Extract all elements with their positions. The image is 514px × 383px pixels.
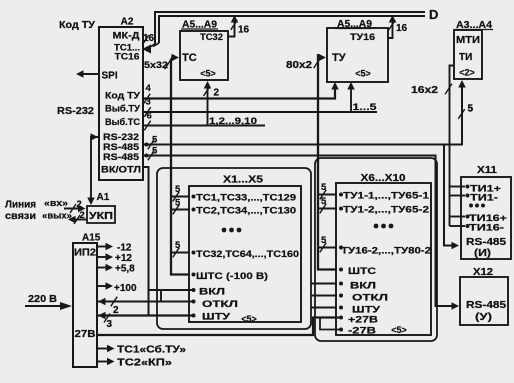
svg-text:5: 5 bbox=[175, 240, 181, 251]
svg-text:(У): (У) bbox=[475, 312, 492, 323]
svg-text:ТУ16-2,...,ТУ80-2: ТУ16-2,...,ТУ80-2 bbox=[341, 246, 431, 257]
svg-text:ВК/ОТЛ: ВК/ОТЛ bbox=[101, 165, 141, 176]
svg-text:RS-485: RS-485 bbox=[466, 237, 507, 248]
svg-text:УКП: УКП bbox=[89, 211, 113, 222]
svg-text:ШТС (-100 В): ШТС (-100 В) bbox=[196, 271, 268, 282]
svg-text:ТС32,ТС64,...,ТС160: ТС32,ТС64,...,ТС160 bbox=[196, 249, 299, 260]
svg-text:+12: +12 bbox=[115, 253, 132, 264]
svg-text:ТС32: ТС32 bbox=[200, 32, 223, 43]
svg-text:D: D bbox=[429, 7, 438, 22]
svg-text:Х12: Х12 bbox=[473, 267, 493, 278]
svg-text:5: 5 bbox=[321, 182, 327, 193]
svg-text:связи: связи bbox=[5, 211, 36, 222]
svg-text:5: 5 bbox=[152, 135, 158, 146]
svg-text:6: 6 bbox=[147, 111, 152, 122]
svg-text:ТС1«Сб.ТУ»: ТС1«Сб.ТУ» bbox=[117, 344, 187, 356]
svg-text:ТУ16: ТУ16 bbox=[350, 32, 375, 42]
svg-text:Код ТУ: Код ТУ bbox=[59, 20, 96, 31]
svg-text:RS-485: RS-485 bbox=[466, 300, 507, 311]
svg-text:«вх»: «вх» bbox=[44, 198, 68, 209]
svg-text:Х1...Х5: Х1...Х5 bbox=[223, 175, 264, 186]
svg-text:+5,8: +5,8 bbox=[115, 264, 135, 275]
svg-text:5: 5 bbox=[468, 104, 474, 115]
svg-text:2: 2 bbox=[214, 88, 220, 99]
svg-text:1,2...9,10: 1,2...9,10 bbox=[209, 116, 257, 127]
svg-text:2: 2 bbox=[80, 210, 85, 221]
svg-text:Х6...Х10: Х6...Х10 bbox=[361, 173, 407, 184]
svg-text:<2>: <2> bbox=[459, 68, 475, 78]
svg-text:5: 5 bbox=[321, 196, 327, 207]
svg-text:SPI: SPI bbox=[102, 71, 118, 82]
svg-text:ВКЛ: ВКЛ bbox=[350, 281, 376, 292]
svg-text:Код ТУ: Код ТУ bbox=[105, 91, 140, 102]
svg-text:-27В: -27В bbox=[348, 326, 376, 337]
svg-text:3: 3 bbox=[146, 97, 151, 108]
svg-text:<5>: <5> bbox=[391, 325, 407, 335]
svg-text:ТУ: ТУ bbox=[332, 52, 346, 64]
svg-text:5х32: 5х32 bbox=[144, 60, 168, 71]
svg-text:16: 16 bbox=[238, 25, 250, 36]
svg-text:2: 2 bbox=[113, 305, 119, 316]
svg-text:5: 5 bbox=[175, 198, 181, 209]
svg-text:Выб.ТУ: Выб.ТУ bbox=[105, 104, 140, 115]
svg-text:А15: А15 bbox=[82, 233, 101, 244]
svg-text:16: 16 bbox=[396, 23, 408, 34]
svg-text:-12: -12 bbox=[117, 243, 132, 254]
svg-text:ШТС: ШТС bbox=[348, 266, 376, 277]
svg-text:5: 5 bbox=[321, 235, 327, 246]
svg-text:3: 3 bbox=[107, 319, 113, 330]
svg-text:ТС16: ТС16 bbox=[115, 52, 140, 63]
svg-text:+27В: +27В bbox=[348, 315, 378, 326]
svg-text:ТУ1-1,...,ТУ65-1: ТУ1-1,...,ТУ65-1 bbox=[343, 191, 430, 202]
svg-text:ВКЛ: ВКЛ bbox=[199, 287, 225, 298]
svg-text:5: 5 bbox=[175, 184, 181, 195]
svg-text:ТС2«КП»: ТС2«КП» bbox=[117, 358, 173, 369]
svg-text:16: 16 bbox=[143, 33, 155, 44]
svg-text:RS-232: RS-232 bbox=[57, 106, 94, 117]
svg-text:27В: 27В bbox=[75, 329, 96, 340]
svg-text:«вых»: «вых» bbox=[42, 211, 72, 222]
svg-text:1...5: 1...5 bbox=[353, 102, 378, 113]
svg-text:80х2: 80х2 bbox=[286, 60, 313, 71]
svg-text:МТИ: МТИ bbox=[456, 35, 480, 46]
svg-text:5: 5 bbox=[152, 146, 158, 157]
svg-text:А1: А1 bbox=[97, 192, 110, 203]
svg-text:<5>: <5> bbox=[200, 69, 216, 79]
svg-text:Выб.ТС: Выб.ТС bbox=[105, 117, 140, 128]
svg-text:220 В: 220 В bbox=[28, 294, 57, 305]
svg-text:ОТКЛ: ОТКЛ bbox=[202, 299, 238, 310]
svg-text:RS-485: RS-485 bbox=[103, 152, 140, 163]
svg-text:ШТУ: ШТУ bbox=[202, 312, 230, 323]
svg-text:Х11: Х11 bbox=[477, 165, 497, 176]
svg-text:2: 2 bbox=[77, 199, 82, 210]
svg-text:16х2: 16х2 bbox=[411, 85, 439, 96]
svg-text:МК-Д: МК-Д bbox=[113, 31, 140, 42]
svg-text:<5>: <5> bbox=[241, 314, 257, 324]
svg-text:ТИ1-: ТИ1- bbox=[470, 193, 498, 204]
svg-text:ТС2,ТС34,...,ТС130: ТС2,ТС34,...,ТС130 bbox=[196, 206, 296, 217]
svg-text:ТС1,ТС33,...,ТС129: ТС1,ТС33,...,ТС129 bbox=[196, 193, 296, 204]
svg-text:ИП2: ИП2 bbox=[74, 248, 96, 259]
svg-text:4: 4 bbox=[146, 83, 152, 94]
svg-text:ТИ: ТИ bbox=[459, 52, 472, 63]
svg-text:ТУ1-2,...,ТУ65-2: ТУ1-2,...,ТУ65-2 bbox=[343, 205, 429, 216]
svg-text:ТИ16-: ТИ16- bbox=[469, 223, 504, 234]
svg-text:<5>: <5> bbox=[355, 69, 371, 79]
svg-text:ТС: ТС bbox=[182, 52, 197, 64]
svg-text:(И): (И) bbox=[474, 248, 491, 259]
svg-text:ОТКЛ: ОТКЛ bbox=[352, 293, 388, 304]
svg-text:А2: А2 bbox=[121, 17, 134, 28]
svg-text:+100: +100 bbox=[114, 283, 137, 294]
svg-text:Линия: Линия bbox=[5, 200, 36, 211]
